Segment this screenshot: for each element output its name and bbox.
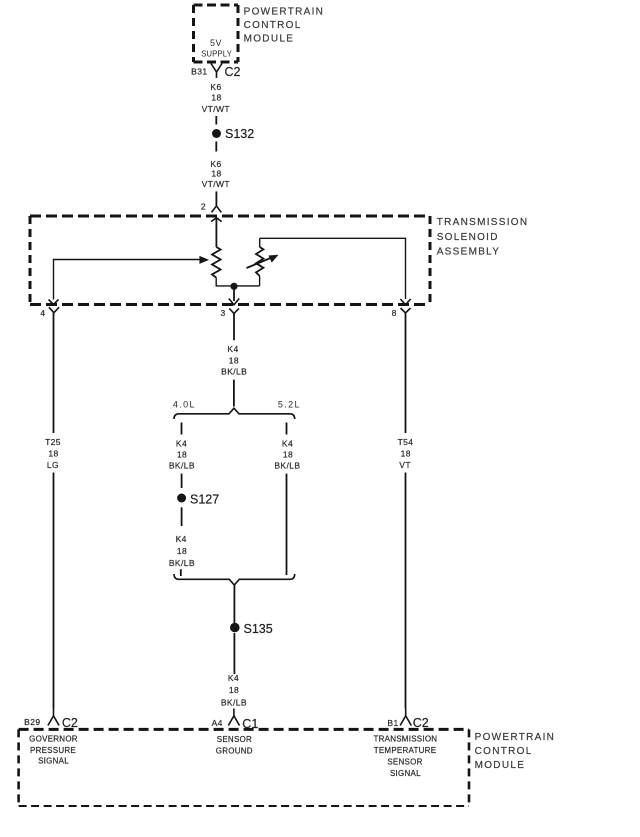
svg-text:MODULE: MODULE [244,33,295,44]
PCM (bottom) title: POWERTRAIN CONTROL MODULE [475,732,556,771]
wire label T25 18 LG [45,437,61,470]
svg-text:8: 8 [392,308,397,318]
splice S127 [177,493,219,507]
wire label K4 18 BK/LB (right branch) [274,439,300,471]
wire merge to S135 [233,585,235,623]
connector C2 pin B29 (inverted Y) [48,709,59,726]
pin 3 arrow [229,299,239,305]
svg-text:K4: K4 [176,439,187,449]
pin 8 fork [401,308,411,313]
svg-text:BK/LB: BK/LB [169,558,195,568]
svg-text:VT: VT [399,460,411,470]
svg-text:GROUND: GROUND [216,747,253,756]
svg-text:4.0L: 4.0L [173,400,196,410]
wire label T54 18 VT [398,437,414,470]
wire [233,633,235,674]
wire [181,507,183,526]
label GOVERNOR PRESSURE SIGNAL [29,735,78,766]
PCM (top) title: POWERTRAIN CONTROL MODULE [244,6,325,44]
svg-text:T25: T25 [45,437,61,447]
wire label K6 18 VT/WT (lower) [202,159,230,189]
wire [215,191,217,206]
connector C2 pin B1 (inverted Y) [400,709,411,726]
svg-text:B29: B29 [24,717,40,727]
svg-text:B31: B31 [191,67,207,77]
pin 3 fork [229,308,239,313]
wire pin4 to resistor (arrow) [54,256,210,300]
pin 4 fork [49,307,59,313]
svg-text:K6: K6 [210,159,221,169]
svg-text:K4: K4 [228,673,239,683]
svg-text:SUPPLY: SUPPLY [201,50,232,59]
svg-text:POWERTRAIN: POWERTRAIN [475,732,556,743]
svg-text:2: 2 [201,202,206,212]
pin 4 arrow [49,300,59,305]
svg-text:C2: C2 [225,65,241,79]
wire [215,116,217,125]
svg-text:5.2L: 5.2L [278,400,301,410]
svg-text:18: 18 [229,356,239,366]
svg-text:BK/LB: BK/LB [169,461,195,471]
junction node [230,283,237,301]
svg-text:PRESSURE: PRESSURE [30,746,76,755]
svg-text:VT/WT: VT/WT [202,104,230,114]
svg-text:LG: LG [47,460,59,470]
right branch tick [286,423,288,435]
svg-text:B1: B1 [387,718,398,728]
svg-text:K6: K6 [210,82,221,92]
pin 2 arrow (inside box, pointing up) [211,218,222,247]
svg-text:TRANSMISSION: TRANSMISSION [373,735,437,744]
wire label K6 18 VT/WT (upper) [202,82,230,114]
svg-text:K4: K4 [227,344,238,354]
svg-text:POWERTRAIN: POWERTRAIN [244,6,325,17]
svg-text:5V: 5V [210,38,222,48]
svg-text:TEMPERATURE: TEMPERATURE [374,746,437,755]
left branch tick [181,423,183,435]
split brace (4.0L / 5.2L) [174,408,295,419]
connector C1 pin A4 (inverted Y) [228,709,239,726]
transmission solenoid assembly box [30,216,430,305]
svg-text:18: 18 [48,449,58,459]
wire [233,380,235,407]
wire pin8 down [405,313,407,433]
svg-text:18: 18 [211,169,221,179]
svg-text:SENSOR: SENSOR [217,735,252,744]
pin 8 arrow [400,299,410,305]
svg-text:K4: K4 [176,534,187,544]
wire pin4 lower [53,473,55,709]
svg-text:A4: A4 [212,718,223,728]
wire label K4 18 BK/LB (above A4) [221,673,247,708]
svg-text:SIGNAL: SIGNAL [38,757,69,766]
solenoid assembly title [437,217,529,258]
svg-text:3: 3 [220,308,225,318]
svg-text:VT/WT: VT/WT [202,179,230,189]
svg-text:18: 18 [177,546,187,556]
svg-text:SIGNAL: SIGNAL [390,769,421,778]
svg-text:SOLENOID: SOLENOID [437,232,499,243]
5V SUPPLY label [201,38,232,59]
wire pin3 down [233,314,235,341]
merge brace [174,574,295,585]
svg-text:S132: S132 [225,127,254,141]
svg-text:S127: S127 [190,493,219,507]
svg-text:18: 18 [401,449,411,459]
wire label K4 18 BK/LB (left branch) [169,439,195,471]
svg-text:18: 18 [177,450,187,460]
wire pin8 lower [405,473,407,709]
svg-text:GOVERNOR: GOVERNOR [29,735,78,744]
right branch wire [286,474,288,575]
wire [215,142,217,152]
svg-text:S135: S135 [244,622,273,636]
svg-text:4: 4 [40,308,45,318]
splice S132 [212,127,254,141]
svg-text:K4: K4 [282,439,293,449]
label SENSOR GROUND [216,735,253,756]
svg-text:BK/LB: BK/LB [221,367,247,377]
svg-text:18: 18 [229,685,239,695]
PCM box (bottom) [19,729,469,806]
wire var-resistor top to pin 8 [260,238,406,299]
svg-text:18: 18 [211,92,221,102]
svg-text:TRANSMISSION: TRANSMISSION [437,217,529,228]
wire label K4 18 BK/LB (below S127) [169,534,195,568]
svg-text:MODULE: MODULE [475,760,526,771]
resistor (solenoid coil) [212,247,221,278]
wire pin4 down [53,313,55,433]
svg-text:ASSEMBLY: ASSEMBLY [437,247,501,258]
svg-text:18: 18 [283,450,293,460]
left branch lower tick [180,569,182,576]
svg-text:CONTROL: CONTROL [475,746,533,757]
wire resistor bottom [216,278,260,286]
svg-text:BK/LB: BK/LB [274,461,300,471]
label TRANSMISSION TEMPERATURE SENSOR SIGNAL [373,735,437,779]
svg-text:SENSOR: SENSOR [387,758,422,767]
pin 2 fork [212,206,222,213]
variable resistor (thermistor) [247,238,279,286]
connector C2 pin B31 (Y symbol) [211,64,222,79]
wire label K4 18 BK/LB (below pin 3) [221,344,247,377]
splice S135 [230,622,273,636]
svg-text:T54: T54 [398,437,414,447]
left branch wire [181,474,183,488]
svg-text:CONTROL: CONTROL [244,20,302,31]
PCM box (top) [194,5,239,62]
svg-text:BK/LB: BK/LB [221,698,247,708]
